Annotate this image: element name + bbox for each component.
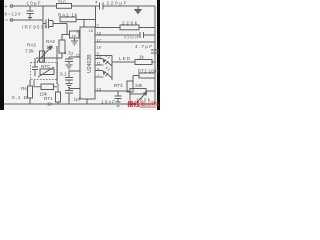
resistor RA2 <box>59 40 65 53</box>
label minus <box>6 19 8 21</box>
svg-text:18: 18 <box>97 45 102 50</box>
wire IC bottom <box>86 99 88 104</box>
svg-text:0.1: 0.1 <box>60 72 67 77</box>
svg-text:RT2 103k: RT2 103k <box>138 69 160 74</box>
wire pin13 right <box>95 90 130 92</box>
svg-text:RA1 1k: RA1 1k <box>58 13 78 18</box>
dashed box NTC <box>31 63 58 80</box>
ground below 1n <box>71 38 78 45</box>
svg-text:+: + <box>5 4 8 10</box>
resistor 10k <box>41 84 54 90</box>
svg-text:Rs: Rs <box>21 86 27 91</box>
labels <box>5 0 160 107</box>
LED D1 <box>95 58 103 60</box>
svg-text:4.7μ: 4.7μ <box>64 51 73 56</box>
capacitor 220uF <box>96 3 103 10</box>
svg-text:9~12V: 9~12V <box>5 12 21 17</box>
wire bottom rail <box>4 103 155 105</box>
LED arrows <box>106 55 110 71</box>
transistor Q1 IRF9530 <box>43 19 54 29</box>
svg-text:IRF9530: IRF9530 <box>22 25 47 30</box>
svg-text:24k: 24k <box>135 83 143 88</box>
terminal minus <box>10 19 13 22</box>
svg-text:1k: 1k <box>139 55 145 60</box>
svg-text:接线: 接线 <box>128 101 141 109</box>
capacitor in NTC box <box>32 58 38 76</box>
capacitor 10uF <box>27 6 34 20</box>
thermistor NTC <box>40 69 54 75</box>
wire pin17 <box>95 41 155 43</box>
svg-text:10k: 10k <box>46 45 54 50</box>
svg-text:10nF: 10nF <box>101 100 115 105</box>
svg-text:7.5k: 7.5k <box>25 49 34 54</box>
pot arrow 103k <box>137 93 146 102</box>
svg-text:14: 14 <box>97 54 102 59</box>
svg-text:RT3: RT3 <box>114 83 123 88</box>
watermark red <box>128 101 160 109</box>
arrow down (output) <box>137 6 139 10</box>
svg-text:图a1网站: 图a1网站 <box>141 101 160 108</box>
wire y58 <box>36 57 62 59</box>
IC U1 <box>80 27 95 99</box>
right black band <box>157 0 160 110</box>
svg-text:13: 13 <box>97 87 102 92</box>
capacitor 220nF <box>95 32 155 38</box>
ground below 0.1 <box>66 84 73 88</box>
wire pin2 220k <box>95 27 120 29</box>
svg-text:1n: 1n <box>72 33 76 38</box>
resistor RA1 <box>60 17 76 22</box>
wire right rail <box>154 6 156 104</box>
resistor pot 103k <box>130 89 146 95</box>
wire pins leds <box>95 65 104 77</box>
wire minus rail <box>13 19 43 21</box>
wire top rail mid <box>72 5 99 7</box>
resistor 220k <box>120 25 139 30</box>
svg-text:1k: 1k <box>47 102 53 107</box>
svg-text:220nF: 220nF <box>124 35 140 40</box>
resistor RT2 <box>139 73 155 78</box>
capacitor 1n box <box>70 31 80 38</box>
terminal + <box>10 5 13 8</box>
capacitor 10nF <box>115 91 122 106</box>
wire mosfet out <box>54 24 70 35</box>
svg-text:16: 16 <box>97 31 102 36</box>
capacitor 1uF <box>65 89 80 105</box>
wire minus drop <box>42 6 44 62</box>
left black band <box>0 0 4 110</box>
capacitor 0.1 <box>65 71 80 83</box>
resistor RA3 pot <box>40 51 45 62</box>
wire top rail left <box>13 5 57 7</box>
svg-text:17: 17 <box>97 38 102 43</box>
resistor RT3 <box>127 81 133 92</box>
svg-text:10: 10 <box>76 53 81 58</box>
svg-text:RT1: RT1 <box>44 96 53 101</box>
svg-text:13: 13 <box>76 29 81 34</box>
resistor Rs <box>28 86 33 98</box>
svg-text:U2402B: U2402B <box>87 54 93 73</box>
svg-text:RA3: RA3 <box>27 43 36 48</box>
svg-text:1μF: 1μF <box>74 97 82 102</box>
svg-text:LED: LED <box>119 56 131 61</box>
wire top rail right <box>103 5 155 7</box>
LED bus <box>95 56 135 81</box>
wire NTC right <box>56 46 58 84</box>
pot arrow NTC <box>37 47 51 62</box>
wire RA1 right <box>76 6 96 27</box>
resistor 510 <box>57 4 72 9</box>
svg-text:NTC: NTC <box>41 64 51 69</box>
resistor RT1 <box>56 92 61 102</box>
LED D2 <box>95 70 103 72</box>
capacitor 220uF plus <box>95 1 97 3</box>
wire Rs top <box>29 80 31 87</box>
svg-text:10μF: 10μF <box>27 1 41 6</box>
svg-text:510: 510 <box>58 0 66 5</box>
svg-text:RA2: RA2 <box>46 39 55 44</box>
resistor 1k right <box>135 60 152 65</box>
svg-text:0.1 Ω: 0.1 Ω <box>12 95 28 100</box>
svg-text:15: 15 <box>89 28 94 33</box>
svg-text:220k: 220k <box>122 21 138 26</box>
capacitor 4.7u mid <box>65 57 80 64</box>
